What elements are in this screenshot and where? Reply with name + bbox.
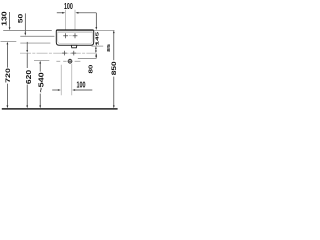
supply cross left bbox=[62, 51, 67, 56]
drain centre line dashes bbox=[34, 60, 80, 63]
svg-text:80: 80 bbox=[89, 64, 95, 73]
dimension line 100 top, right segment with left arrow bbox=[75, 12, 96, 14]
supply centre line bbox=[20, 52, 96, 54]
dim 720 vertical with arrows bbox=[7, 42, 9, 109]
extension line basin bottom right bbox=[92, 45, 104, 47]
svg-text:100: 100 bbox=[77, 82, 86, 90]
drain outlet symbol bbox=[68, 59, 72, 63]
svg-text:145: 145 bbox=[95, 31, 100, 45]
dimension line 100 top, left segment with right arrow bbox=[57, 12, 65, 14]
extension line rim top right bbox=[94, 29, 115, 31]
centre dash between holes bbox=[69, 35, 72, 37]
floor line bbox=[2, 108, 118, 110]
svg-text:850: 850 bbox=[110, 61, 117, 75]
basin inner bowl outline bbox=[58, 32, 92, 43]
dim 540 vertical with arrows bbox=[39, 61, 41, 108]
fixing hole right cross bbox=[73, 33, 78, 38]
dim 850: up arrow to rim line bbox=[113, 30, 115, 108]
svg-text:85: 85 bbox=[107, 43, 112, 52]
fixing hole left cross bbox=[63, 33, 68, 38]
arrow 50 down to hole centre line bbox=[24, 13, 26, 35]
basin outline front view bbox=[56, 30, 93, 45]
svg-text:50: 50 bbox=[16, 14, 24, 23]
dim 85: from basin bottom line to supply centre line bbox=[95, 46, 97, 53]
drain waste below basin bbox=[71, 45, 77, 48]
dim 720: extension line at basin underside left bbox=[1, 40, 17, 42]
supply cross right bbox=[72, 51, 77, 56]
extension line hole centres left bbox=[20, 35, 54, 37]
bottom dim 100 line, left segment with right arrow bbox=[52, 89, 61, 91]
dim 620 vertical with arrows bbox=[26, 42, 28, 108]
extension line rim top left bbox=[3, 30, 52, 32]
bottom dim 100: extension lines bbox=[60, 65, 62, 95]
svg-text:130: 130 bbox=[0, 11, 8, 26]
dim 145: upper arrow down to rim line bbox=[95, 13, 97, 30]
basin top rim edge emphasised bbox=[57, 29, 94, 31]
extension line right tap hole bbox=[74, 10, 76, 30]
extension line bowl bottom left bbox=[20, 42, 50, 44]
extension line drain top bbox=[78, 58, 97, 60]
basin inner rim line bbox=[57, 31, 92, 33]
arrow 130 down to rim line bbox=[9, 12, 11, 30]
svg-text:620: 620 bbox=[25, 70, 33, 84]
dim 80: supply line to drain top line bbox=[95, 53, 97, 58]
svg-text:~540: ~540 bbox=[37, 72, 45, 93]
svg-text:720: 720 bbox=[5, 68, 12, 83]
extension line left tap hole bbox=[65, 10, 67, 30]
bottom dim 100 line, right segment with left arrow bbox=[72, 89, 92, 91]
dim 145: lower arrow down to basin bottom line bbox=[95, 43, 97, 46]
